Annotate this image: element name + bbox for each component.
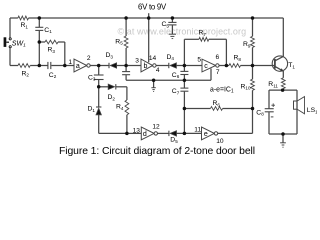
svg-text:7: 7 [216, 69, 220, 76]
svg-text:a: a [76, 63, 80, 70]
svg-text:d: d [143, 131, 147, 138]
svg-text:11: 11 [194, 126, 201, 133]
svg-text:b: b [144, 63, 148, 70]
svg-text:6: 6 [216, 54, 220, 61]
svg-text:6V to 9V: 6V to 9V [138, 2, 167, 11]
svg-text:© at www.electronicsproject.or: © at www.electronicsproject.org [118, 27, 247, 37]
svg-text:4: 4 [156, 67, 160, 74]
svg-text:5: 5 [197, 57, 201, 64]
svg-text:1: 1 [68, 59, 72, 66]
svg-text:3: 3 [135, 57, 139, 64]
svg-text:Figure 1: Circuit diagram of 2: Figure 1: Circuit diagram of 2-tone door… [59, 146, 255, 157]
svg-text:c: c [204, 63, 208, 70]
svg-text:14: 14 [149, 55, 157, 62]
svg-text:13: 13 [133, 127, 141, 134]
svg-text:e: e [204, 131, 208, 138]
svg-text:12: 12 [152, 123, 160, 130]
svg-text:2: 2 [87, 55, 91, 62]
svg-text:10: 10 [216, 138, 224, 145]
